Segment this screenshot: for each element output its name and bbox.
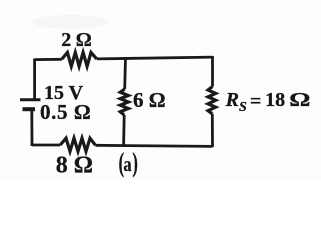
svg-text:2 Ω: 2 Ω: [61, 29, 91, 51]
label (a): [119, 147, 138, 177]
svg-text:): ): [132, 147, 137, 177]
svg-text:Ω: Ω: [289, 89, 310, 111]
svg-text:0.5 Ω: 0.5 Ω: [40, 100, 91, 124]
wire middle branch lower: [122, 115, 125, 146]
battery plate short: [23, 107, 36, 111]
svg-text:6 Ω: 6 Ω: [133, 88, 166, 112]
wire right branch lower: [211, 114, 214, 147]
wire left lower (battery to bottom): [30, 109, 33, 145]
svg-text:RS=18: RS=18: [225, 89, 286, 115]
wire top right segment: [97, 57, 213, 59]
resistor R bottom 8 ohm: [60, 138, 95, 151]
svg-text:a: a: [123, 154, 131, 176]
wire top left segment: [35, 58, 62, 61]
resistor R top 2 ohm: [62, 52, 97, 66]
svg-text:8 Ω: 8 Ω: [56, 153, 93, 179]
wire left upper (to battery): [33, 59, 36, 101]
wire right branch upper: [211, 56, 214, 87]
battery plate long: [20, 98, 41, 101]
wire bottom right segment: [96, 145, 213, 146]
resistor RS right 18 ohm: [208, 87, 216, 114]
faint page smudge: [32, 15, 108, 29]
wire middle branch upper: [123, 57, 127, 89]
wire bottom left segment: [32, 145, 60, 146]
resistor R middle 6 ohm: [120, 89, 128, 115]
